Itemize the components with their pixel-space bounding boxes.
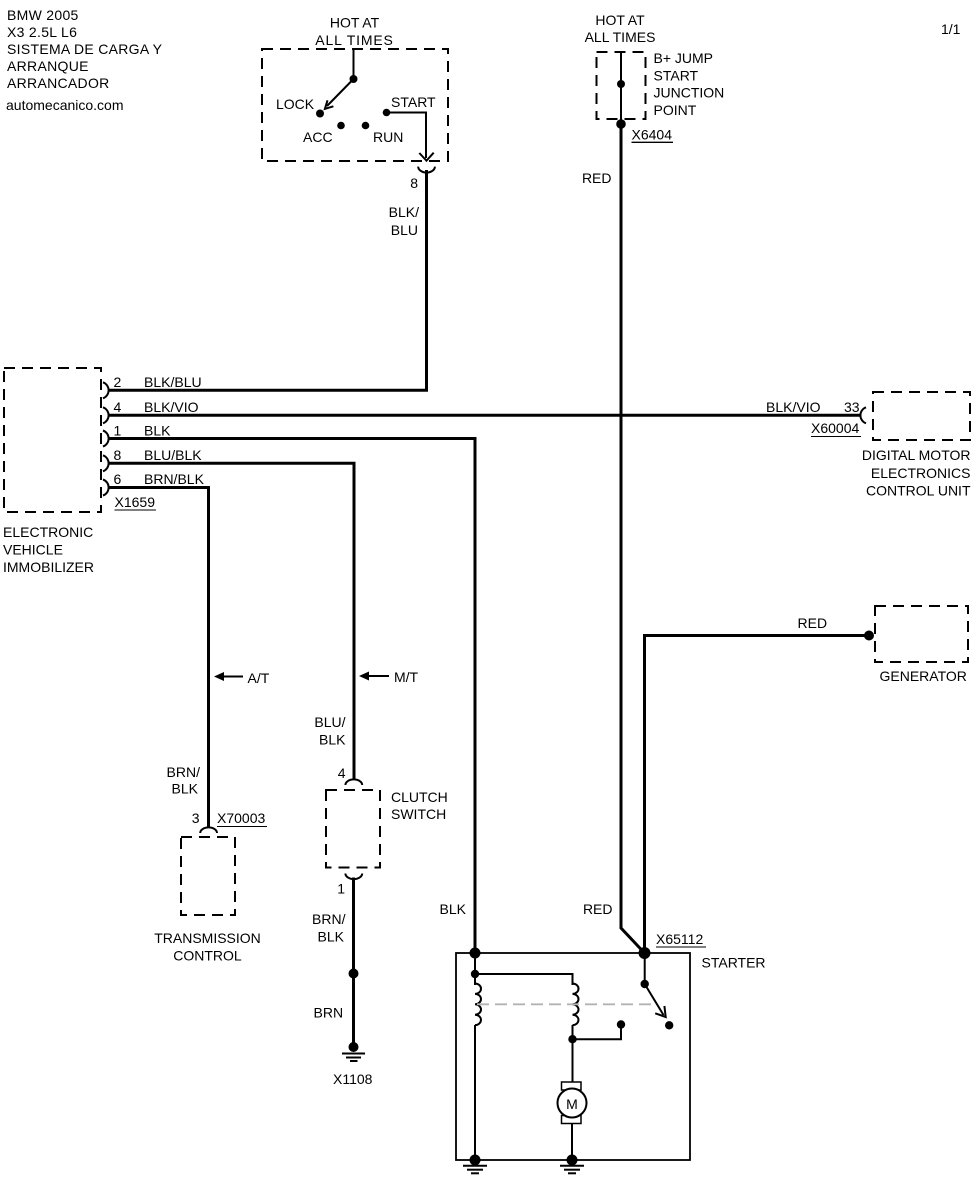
wire START to pin 8 with arrow xyxy=(387,113,434,161)
svg-text:A/T: A/T xyxy=(248,670,270,686)
BLK terminal dot xyxy=(470,948,481,959)
junction dot below pull-in coil xyxy=(568,1035,576,1043)
svg-text:HOT AT: HOT AT xyxy=(595,12,645,28)
svg-text:BLK/: BLK/ xyxy=(389,204,419,220)
motor brush top xyxy=(562,1082,582,1090)
transmission connector cup xyxy=(200,827,217,833)
svg-text:ALL TIMES: ALL TIMES xyxy=(585,29,656,45)
svg-text:CONTROL: CONTROL xyxy=(173,948,242,964)
hold-in coil xyxy=(475,984,481,1026)
label BLK/BLU vertical xyxy=(389,204,419,238)
wire BRN/BLK pin6 to transmission control xyxy=(110,488,209,829)
svg-text:RED: RED xyxy=(798,615,828,631)
clutch connector cup bottom xyxy=(345,874,362,880)
svg-text:4: 4 xyxy=(114,399,122,415)
svg-text:ARRANQUE: ARRANQUE xyxy=(7,58,89,74)
mechanical link dashed xyxy=(477,1003,654,1005)
svg-text:2: 2 xyxy=(114,374,122,390)
pull-in coil xyxy=(573,984,579,1026)
svg-text:M: M xyxy=(566,1096,578,1112)
wire through junction box xyxy=(620,52,622,124)
svg-text:8: 8 xyxy=(410,175,418,191)
title block text xyxy=(6,7,163,113)
svg-text:1/1: 1/1 xyxy=(941,21,961,37)
contact LOCK xyxy=(316,110,324,118)
svg-text:3: 3 xyxy=(192,810,200,826)
svg-text:BLU/BLK: BLU/BLK xyxy=(144,447,202,463)
splice dot xyxy=(349,969,359,979)
starter ground left xyxy=(463,1166,487,1174)
label BLU/BLK vertical xyxy=(314,714,346,748)
svg-text:TRANSMISSION: TRANSMISSION xyxy=(154,930,261,946)
wire feed into ignition switch xyxy=(353,49,355,78)
terminal dot X65112 xyxy=(639,947,651,959)
motor brush bottom xyxy=(562,1116,582,1124)
pin 6 connector arc xyxy=(103,480,109,496)
svg-text:ALL TIMES: ALL TIMES xyxy=(315,32,393,48)
electronic vehicle immobilizer box xyxy=(4,368,101,512)
svg-text:X65112: X65112 xyxy=(656,931,703,947)
solenoid switch arm arrow xyxy=(645,984,666,1017)
svg-text:BLK/VIO: BLK/VIO xyxy=(766,399,821,415)
A/T arrow xyxy=(214,672,243,681)
svg-text:BLK/VIO: BLK/VIO xyxy=(144,399,199,415)
svg-text:BLU: BLU xyxy=(391,222,418,238)
svg-text:automecanico.com: automecanico.com xyxy=(6,97,124,113)
svg-text:START: START xyxy=(654,67,699,83)
contact stub dot xyxy=(617,1020,625,1028)
wire BLK pin1 to starter xyxy=(110,439,476,954)
svg-text:4: 4 xyxy=(338,765,346,781)
svg-text:BLU/: BLU/ xyxy=(314,714,345,730)
pin 1 connector arc xyxy=(103,431,109,447)
contact ACC xyxy=(337,122,345,130)
solenoid switch fixed dot xyxy=(641,980,649,988)
connector X60004 label xyxy=(811,420,861,437)
starter ground dot right xyxy=(567,1155,578,1166)
solenoid switch lower dot xyxy=(665,1021,673,1029)
svg-text:33: 33 xyxy=(844,399,860,415)
svg-text:ELECTRONICS: ELECTRONICS xyxy=(871,465,971,481)
wire from terminal to switch xyxy=(644,953,646,984)
starter ground right xyxy=(560,1166,584,1174)
digital motor electronics control unit box xyxy=(873,392,970,440)
svg-text:B+ JUMP: B+ JUMP xyxy=(654,50,714,66)
clutch switch name xyxy=(391,789,448,822)
pin 2 connector arc xyxy=(103,382,109,398)
svg-text:X70003: X70003 xyxy=(217,810,265,826)
DME connector arc xyxy=(860,407,866,423)
ignition switch labels xyxy=(276,94,436,145)
junction terminal X6404 dot xyxy=(616,119,626,129)
svg-text:RED: RED xyxy=(583,901,613,917)
svg-text:RED: RED xyxy=(582,170,612,186)
wire BLK/BLU from ignition to immobilizer pin 2 xyxy=(110,170,427,390)
wire BLU/BLK pin8 to clutch switch xyxy=(110,463,355,780)
svg-text:POINT: POINT xyxy=(654,102,697,118)
svg-text:START: START xyxy=(391,94,436,110)
svg-text:ARRANCADOR: ARRANCADOR xyxy=(7,75,110,91)
B+ jump start labels xyxy=(654,50,725,118)
svg-text:ELECTRONIC: ELECTRONIC xyxy=(3,524,93,540)
svg-text:JUNCTION: JUNCTION xyxy=(654,85,725,101)
svg-text:M/T: M/T xyxy=(394,669,419,685)
svg-text:DIGITAL MOTOR: DIGITAL MOTOR xyxy=(862,447,971,463)
svg-text:CONTROL UNIT: CONTROL UNIT xyxy=(866,483,971,499)
svg-text:X1108: X1108 xyxy=(333,1071,373,1087)
connector X70003 label xyxy=(217,810,267,827)
svg-text:1: 1 xyxy=(337,881,345,897)
node HOT AT ALL TIMES (B+ feed) xyxy=(585,12,656,45)
svg-text:ACC: ACC xyxy=(303,129,333,145)
svg-text:SISTEMA DE CARGA Y: SISTEMA DE CARGA Y xyxy=(7,41,163,57)
svg-text:X60004: X60004 xyxy=(811,420,859,436)
internal wire left vertical xyxy=(474,953,476,985)
svg-text:BLK: BLK xyxy=(440,901,467,917)
immobilizer name xyxy=(3,524,94,575)
transmission control box xyxy=(181,837,235,915)
generator terminal dot xyxy=(864,631,874,641)
svg-text:BLK: BLK xyxy=(319,732,346,748)
DME name xyxy=(862,447,971,499)
svg-text:STARTER: STARTER xyxy=(702,955,766,971)
connector X1659 label xyxy=(115,494,157,510)
contact stub wire xyxy=(573,1025,622,1040)
svg-text:X1659: X1659 xyxy=(115,494,156,510)
ignition rotor arm arrow xyxy=(325,79,354,109)
svg-text:BRN/: BRN/ xyxy=(167,764,201,780)
M/T arrow xyxy=(359,672,389,681)
ignition switch box xyxy=(262,49,448,161)
internal wire below hold-in coil xyxy=(474,1025,476,1160)
wire BLK/VIO pin4 to DME xyxy=(110,414,862,417)
svg-text:GENERATOR: GENERATOR xyxy=(880,668,967,684)
svg-text:1: 1 xyxy=(114,423,122,439)
svg-text:8: 8 xyxy=(114,447,122,463)
wire RED battery feed to starter xyxy=(621,124,645,953)
svg-text:X3 2.5L L6: X3 2.5L L6 xyxy=(7,24,77,40)
svg-text:BLK: BLK xyxy=(144,423,171,439)
connector label X6404 xyxy=(632,127,674,143)
pin 8 connector arc xyxy=(103,455,109,471)
svg-text:HOT AT: HOT AT xyxy=(330,15,380,31)
clutch connector cup top xyxy=(345,779,362,785)
svg-text:RUN: RUN xyxy=(373,129,403,145)
junction dot inside box xyxy=(617,80,625,88)
svg-text:BLK: BLK xyxy=(318,929,345,945)
svg-text:BRN/BLK: BRN/BLK xyxy=(144,471,205,487)
pin 4 connector arc xyxy=(103,407,109,423)
node HOT AT ALL TIMES (ignition feed) xyxy=(315,15,393,49)
connector X65112 label xyxy=(656,931,706,947)
label BRN/BLK below clutch xyxy=(312,911,346,945)
svg-text:IMMOBILIZER: IMMOBILIZER xyxy=(3,559,94,575)
svg-text:SWITCH: SWITCH xyxy=(391,806,446,822)
svg-text:BRN: BRN xyxy=(314,1005,344,1021)
svg-text:CLUTCH: CLUTCH xyxy=(391,789,448,805)
connector 8 cup xyxy=(418,167,435,173)
ground X1108 xyxy=(342,1042,365,1061)
transmission control name xyxy=(154,930,261,964)
starter ground dot left xyxy=(470,1155,481,1166)
wire RED generator branch xyxy=(645,636,870,954)
starter internal junction dot xyxy=(471,970,479,978)
svg-text:LOCK: LOCK xyxy=(276,96,315,112)
motor M1 xyxy=(558,1089,587,1118)
wire BRN/BLK below clutch xyxy=(352,878,355,1048)
svg-text:6: 6 xyxy=(114,471,122,487)
svg-text:BMW 2005: BMW 2005 xyxy=(7,7,79,23)
generator box xyxy=(875,606,968,662)
ignition rotor pivot xyxy=(350,75,358,83)
internal wire below pull-in coil xyxy=(572,1025,574,1082)
internal wire to pull-in coil xyxy=(475,974,573,985)
clutch switch box xyxy=(326,790,380,868)
svg-text:BLK/BLU: BLK/BLU xyxy=(144,374,202,390)
contact START xyxy=(383,109,391,117)
wire motor to ground xyxy=(571,1124,573,1161)
svg-text:BRN/: BRN/ xyxy=(312,911,346,927)
label BRN/BLK vertical xyxy=(167,764,201,797)
starter box xyxy=(456,953,690,1160)
svg-text:BLK: BLK xyxy=(172,781,199,797)
B+ jump start junction point box xyxy=(597,52,646,119)
svg-text:X6404: X6404 xyxy=(632,127,673,143)
contact RUN xyxy=(362,122,370,130)
svg-text:VEHICLE: VEHICLE xyxy=(3,542,63,558)
